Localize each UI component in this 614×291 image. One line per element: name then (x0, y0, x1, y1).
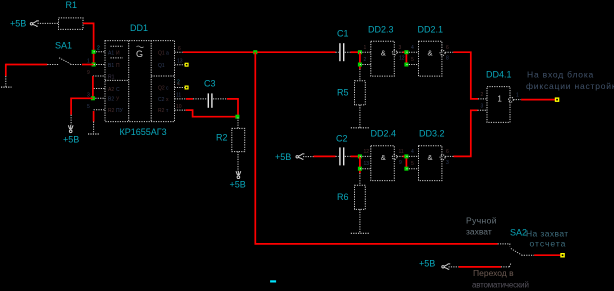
label +5V bottom (419, 259, 435, 269)
switch SA2 right lead (521, 254, 534, 256)
svg-text:13: 13 (177, 59, 183, 65)
DD1 right pin stub out (top) (175, 51, 183, 53)
label DD2.3 (368, 25, 394, 35)
label +5V below SA1 (63, 135, 79, 145)
svg-text:DD2.1: DD2.1 (418, 25, 444, 35)
svg-text:Переход в: Переход в (473, 268, 514, 278)
svg-text:ПУ: ПУ (116, 108, 124, 114)
node junction DD2.1 in1 (404, 50, 408, 54)
svg-text:A1: A1 (108, 51, 114, 57)
DD1 right pin stub pad2 (175, 87, 185, 89)
node junction R2 top (235, 115, 239, 119)
svg-text:захват: захват (466, 227, 492, 237)
svg-text:SA1: SA1 (55, 41, 72, 51)
svg-text:1: 1 (364, 45, 367, 51)
node junction DD2.3 in1 (358, 50, 362, 54)
ground lead (5, 76, 7, 87)
output pad (yellow) (555, 97, 560, 102)
svg-text:автоматический: автоматический (472, 281, 529, 290)
node junction DD3.2 in2 (404, 167, 408, 171)
gate DD3.2 (406, 146, 453, 181)
gate DD4.1 (478, 87, 522, 123)
DD1 lower right pin stub (175, 109, 186, 111)
svg-text:а: а (166, 51, 169, 57)
svg-text:1: 1 (516, 93, 519, 99)
IC DD1 body (105, 41, 175, 122)
svg-text:DD2.4: DD2.4 (371, 129, 397, 139)
svg-text:6: 6 (446, 45, 449, 51)
wire DD2.1 out to DD4.1 in1 (453, 52, 478, 99)
svg-text:&: & (428, 48, 433, 57)
wire +5V to SA2 open contact (459, 266, 501, 268)
svg-text:КР1655АГ3: КР1655АГ3 (120, 127, 167, 137)
svg-text:DD3.2: DD3.2 (419, 129, 445, 139)
svg-text:1: 1 (497, 95, 502, 104)
pin numbers DD2.4 (364, 149, 404, 167)
svg-text:На захват: На захват (526, 229, 569, 239)
wire down to ground from SA1 left (5, 64, 7, 76)
annotation avtomaticheskiy (472, 281, 529, 290)
label DD1 (130, 23, 148, 33)
DD1 right pin stub to C3 (175, 98, 187, 100)
resistor R5 (355, 81, 366, 105)
switch SA1 (47, 58, 82, 65)
open pad pin 2 (yellow) (185, 86, 189, 90)
annotation line 1 right of DD4.1 (527, 70, 594, 80)
svg-text:И: И (116, 51, 120, 57)
svg-text:3: 3 (87, 93, 90, 99)
SA2 pad (yellow) (560, 253, 565, 258)
wire DD3.2 out up to DD4.1 in2 (454, 110, 478, 156)
label C3 (204, 79, 216, 89)
label & in DD2.4 (381, 153, 386, 162)
svg-text:фиксации настройки: фиксации настройки (526, 81, 614, 91)
node junction pin5 (91, 96, 95, 100)
svg-text:C1: C1 (337, 29, 349, 39)
wire +5V to C2 (314, 155, 336, 157)
svg-text:&: & (381, 48, 386, 57)
wire C2 to DD2.4 node (350, 155, 360, 157)
svg-text:R1: R1 (108, 75, 115, 81)
label SA2 (510, 228, 527, 238)
node junction DD2.4 in1 (358, 154, 362, 158)
DD1 left pin stubs (93, 52, 105, 110)
label +5V under R2 (230, 180, 246, 190)
svg-text:3: 3 (446, 160, 449, 166)
power arrow left mid (296, 154, 304, 159)
svg-text:R2: R2 (158, 108, 165, 114)
resistor R6 (355, 185, 366, 209)
annotation line 2 right of DD4.1 (526, 81, 614, 91)
svg-text:9: 9 (87, 70, 90, 76)
svg-text:R2: R2 (108, 108, 115, 114)
gate DD2.1 (406, 41, 453, 76)
label DD2.4 (371, 129, 397, 139)
wire long vertical drop and bottom bus (255, 52, 497, 244)
DD1 right pin stub pad1 (175, 64, 185, 66)
wire DD1 pin3 down to pin5 node (92, 76, 94, 98)
svg-text:С: С (116, 87, 120, 93)
label +5V mid (275, 152, 291, 162)
R5 bottom lead (359, 105, 361, 128)
svg-text:B1: B1 (108, 63, 114, 69)
ground lead under DD1 (93, 122, 95, 135)
label 1 in DD4.1 (497, 95, 502, 104)
label R6 (337, 192, 349, 202)
svg-text:10: 10 (176, 104, 182, 110)
capacitor C3 (193, 98, 227, 100)
svg-text:DD1: DD1 (130, 23, 148, 33)
SA2 open contact lead (501, 263, 511, 267)
svg-text:отсчета: отсчета (530, 239, 567, 249)
svg-text:5: 5 (411, 161, 414, 167)
wire C3 to R2 node (227, 99, 238, 117)
resistor R1 (59, 18, 84, 30)
svg-text:6: 6 (178, 46, 181, 52)
svg-text:6: 6 (446, 149, 449, 155)
svg-text:12: 12 (399, 56, 405, 62)
pin numbers DD4.1 (481, 92, 520, 110)
svg-text:2: 2 (364, 57, 367, 63)
svg-text:Q2: Q2 (158, 86, 165, 92)
wire lower pin to R2 node (186, 110, 238, 117)
wire DD1 output to C1 (top rail) (183, 51, 336, 53)
svg-text:R1: R1 (66, 0, 78, 10)
wire C1 to DD2.3 node (350, 51, 360, 53)
svg-text:A2: A2 (108, 87, 114, 93)
node junction DD3.2 in1 (404, 154, 408, 158)
svg-text:3: 3 (481, 104, 484, 110)
wire node to node (inputs tied) (359, 52, 361, 68)
svg-text:13: 13 (364, 161, 370, 167)
label SA1 (55, 41, 72, 51)
ground symbol under R6 (351, 232, 369, 234)
svg-text:+5В: +5В (419, 259, 435, 269)
svg-text:B2: B2 (108, 97, 114, 103)
R2 top lead (237, 117, 239, 128)
gate DD2.4 (360, 146, 403, 181)
gate DD2.3 (360, 41, 403, 76)
svg-text:Q1: Q1 (158, 51, 165, 57)
capacitor C2 (336, 155, 351, 157)
power arrow down under R2 (236, 171, 241, 179)
svg-text:4: 4 (177, 82, 180, 88)
label R2 (216, 133, 228, 143)
svg-text:&: & (381, 153, 386, 162)
label & in DD2.3 (381, 48, 386, 57)
svg-text:12: 12 (364, 149, 370, 155)
wire pin5 node to +5V drop (71, 98, 93, 115)
pin labels inside DD1 left column (108, 51, 124, 115)
R6 top lead (359, 173, 361, 185)
wire pin to C3 (186, 98, 193, 100)
power arrow down +5V (68, 125, 73, 133)
wire tied inputs DD2.4 (359, 156, 361, 173)
svg-text:SA2: SA2 (510, 228, 527, 238)
power arrow left bottom (442, 264, 450, 269)
svg-text:4: 4 (411, 45, 414, 51)
lead to +5V arrow (70, 115, 72, 125)
label R1 (66, 0, 78, 10)
cursor mark (270, 280, 276, 282)
node junction SA1/pin (92, 63, 96, 67)
svg-text:C2: C2 (158, 97, 165, 103)
svg-text:Ручной: Ручной (466, 216, 497, 226)
annotation Perekhod v (473, 268, 514, 278)
R6 bottom lead (359, 209, 361, 233)
svg-text:5: 5 (411, 57, 414, 63)
svg-text:11: 11 (399, 149, 404, 155)
wire DD2.4 out to DD3.2 node (403, 156, 407, 168)
resistor R2 (232, 128, 245, 151)
wire DD2.3 out to DD2.1 node (403, 52, 407, 64)
annotation Na zakhvat (526, 229, 569, 239)
label DD3.2 (419, 129, 445, 139)
switch SA2 lever (511, 249, 522, 255)
svg-text:+5В: +5В (10, 19, 26, 29)
label & in DD2.1 (428, 48, 433, 57)
lead arrow to wire (303, 156, 314, 158)
wire DD4.1 out to pad (521, 99, 556, 101)
ground symbol under R5 (351, 127, 369, 129)
svg-text:П: П (116, 63, 120, 69)
svg-text:+5В: +5В (63, 135, 79, 145)
svg-text:На вход блока: На вход блока (527, 70, 594, 80)
svg-text:R5: R5 (337, 88, 349, 98)
ground symbol left (1, 86, 12, 88)
wire DD1 pin7 to ground (93, 111, 95, 122)
wire SA1 to DD1 pin 2 (82, 64, 94, 66)
wire R1 to node, down to DD1 pins (83, 23, 94, 64)
svg-text:Q1: Q1 (158, 63, 165, 69)
label zakhvat (466, 227, 492, 237)
svg-text:+5В: +5В (230, 180, 246, 190)
svg-text:G: G (136, 49, 143, 59)
label G inside DD1 (136, 46, 144, 59)
pin labels inside DD1 right column (158, 51, 169, 115)
svg-text:R2: R2 (216, 133, 228, 143)
svg-text:5: 5 (87, 104, 90, 110)
label DD4.1 (486, 70, 512, 80)
power arrow left (to +5V) (30, 21, 39, 26)
svg-text:2: 2 (97, 46, 100, 52)
pin numbers DD2.1 (411, 45, 449, 63)
label +5V top-left (10, 19, 26, 29)
label Ruchnoy (466, 216, 497, 226)
label KR1655AG3 (120, 127, 167, 137)
switch SA2 left lead (498, 244, 510, 247)
label R5 (337, 88, 349, 98)
svg-text:C2: C2 (336, 134, 348, 144)
pin numbers outside DD1 (87, 46, 183, 111)
node junction DD2.3 in2 (358, 63, 362, 67)
wire left to SA1 (6, 64, 48, 66)
R5 top lead (359, 69, 361, 81)
node junction DD2.1 in2 (404, 63, 408, 67)
open pad pin (yellow) (185, 63, 189, 67)
label C2 (336, 134, 348, 144)
svg-text:2: 2 (481, 92, 484, 98)
ground symbol under DD1 (88, 133, 100, 135)
label & in DD3.2 (428, 153, 433, 162)
pin numbers DD2.3 (364, 45, 405, 63)
label C1 (337, 29, 349, 39)
wire SA2 to pad (534, 254, 560, 256)
wire from +5V arrow to R1 (38, 22, 59, 24)
svg-text:4: 4 (411, 149, 414, 155)
svg-text:C3: C3 (204, 79, 216, 89)
svg-text:DD4.1: DD4.1 (486, 70, 512, 80)
capacitor C1 (336, 51, 351, 53)
pin numbers DD3.2 (411, 149, 449, 167)
svg-text:&: & (428, 153, 433, 162)
label DD2.1 (418, 25, 444, 35)
svg-text:DD2.3: DD2.3 (368, 25, 394, 35)
svg-text:8: 8 (446, 56, 449, 62)
svg-text:+5В: +5В (275, 152, 291, 162)
svg-text:11: 11 (176, 93, 181, 99)
svg-text:1: 1 (87, 59, 90, 65)
svg-text:9: 9 (399, 160, 402, 166)
svg-text:3: 3 (399, 45, 402, 51)
svg-text:R6: R6 (337, 192, 349, 202)
node junction R1/pin (92, 50, 96, 54)
R2 bottom lead (237, 152, 239, 172)
node junction top rail / long drop (253, 50, 257, 54)
lead to +5V wire (449, 266, 459, 268)
annotation otscheta (530, 239, 567, 249)
node junction DD2.4 in2 (358, 167, 362, 171)
